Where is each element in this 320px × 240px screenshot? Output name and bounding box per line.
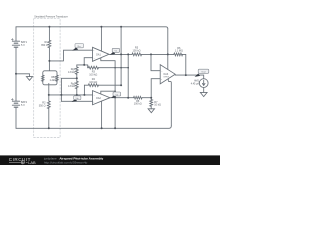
svg-text:Simulated Pressure Transducer: Simulated Pressure Transducer bbox=[34, 15, 68, 18]
ammeter M1 circle bbox=[199, 79, 208, 88]
OA3 minus-in wire bbox=[151, 79, 160, 98]
Rg chain wires bbox=[76, 65, 78, 95]
svg-text:LAB: LAB bbox=[28, 160, 36, 165]
resistor R6 zigzag bbox=[174, 53, 183, 56]
R7 wires bbox=[150, 98, 152, 109]
net flag OA1 +in bbox=[72, 44, 83, 51]
svg-text:10 kΩ: 10 kΩ bbox=[154, 104, 161, 107]
OA3 V+ pin bbox=[167, 29, 169, 69]
OA3 output wire bbox=[175, 75, 204, 79]
svg-text:OA2: OA2 bbox=[96, 97, 101, 100]
logo LAB line bbox=[9, 161, 28, 163]
bridge edge resistor right bbox=[56, 75, 58, 81]
svg-text:4.45 µA: 4.45 µA bbox=[191, 82, 200, 85]
svg-text:5 V: 5 V bbox=[21, 104, 25, 107]
Rg mid wire bbox=[61, 77, 76, 79]
caption bar bbox=[0, 155, 220, 165]
OA1 V- pin net bbox=[101, 58, 115, 128]
ammeter arrow bbox=[202, 80, 205, 85]
OA1 plus-in wire bbox=[49, 50, 92, 61]
R1 column wire bbox=[48, 27, 50, 71]
ammeter ground wire bbox=[203, 88, 205, 93]
svg-text:100 kΩ: 100 kΩ bbox=[133, 49, 141, 52]
resistor R3 zigzag bbox=[88, 66, 98, 69]
left rail bbox=[15, 27, 17, 129]
svg-text:OA3: OA3 bbox=[163, 73, 168, 76]
resistor R4 zigzag bbox=[88, 84, 98, 87]
battery BAT2 bbox=[12, 100, 19, 105]
ground triangle (mid supply) bbox=[26, 77, 32, 81]
R4 wire bbox=[84, 84, 121, 86]
OA2 output wire bbox=[110, 97, 151, 99]
svg-text:4.8 kΩ: 4.8 kΩ bbox=[68, 71, 75, 74]
op-amp OA2 bbox=[93, 91, 111, 105]
R4 to OA2 minus vertical bbox=[83, 85, 85, 95]
svg-text:http://circuitlab.com/c/59wscm: http://circuitlab.com/c/59wscm4p bbox=[44, 161, 88, 165]
svg-text:100 kΩ: 100 kΩ bbox=[89, 81, 97, 84]
net flag OA1 out bbox=[110, 48, 120, 54]
text labels bbox=[21, 15, 200, 107]
mid-supply ground wire bbox=[16, 74, 30, 77]
resistor RG1 zigzag bbox=[75, 67, 78, 74]
Rg top wire to R3 bbox=[77, 65, 88, 68]
cross vertical x=61.4 bbox=[60, 78, 62, 101]
op-amp OA3 bbox=[160, 65, 175, 84]
svg-text:350 Ω: 350 Ω bbox=[41, 44, 48, 47]
svg-text:4.8 kΩ: 4.8 kΩ bbox=[68, 85, 75, 88]
ground triangle output bbox=[200, 92, 207, 96]
OA1 minus-in wire bbox=[84, 58, 92, 65]
resistor R1 zigzag (vertical) bbox=[48, 40, 51, 47]
OA3 plus-in drop + R7 bbox=[151, 54, 160, 70]
svg-text:Vout: Vout bbox=[201, 71, 206, 74]
svg-text:OP07: OP07 bbox=[163, 77, 169, 79]
top rail bbox=[16, 27, 168, 29]
dashed enclosure box bbox=[34, 19, 60, 138]
bridge-bottom / OA2 minus-in wire bbox=[49, 94, 93, 96]
junction dots bbox=[15, 26, 187, 130]
resistor RG2 zigzag bbox=[75, 81, 78, 88]
svg-text:5 V: 5 V bbox=[21, 44, 25, 47]
OA2 V- pin to rail bbox=[101, 101, 103, 128]
resistor R7 zigzag bbox=[150, 99, 153, 106]
OA1 V+ pin bbox=[100, 27, 102, 51]
OA3 V- pin bbox=[168, 79, 171, 126]
battery plus marks bbox=[11, 38, 13, 100]
OA2 plus-in wire bbox=[61, 100, 92, 102]
bottom rail bbox=[16, 126, 171, 128]
svg-text:RB1: RB1 bbox=[51, 77, 56, 79]
svg-text:100 kΩ: 100 kΩ bbox=[134, 103, 142, 106]
svg-text:1.1 MΩ: 1.1 MΩ bbox=[175, 50, 183, 53]
OA1 output / R5R6 wire bbox=[109, 54, 186, 75]
ground triangle R7 bbox=[148, 109, 154, 113]
V3 vertical R3 feedback bbox=[127, 54, 129, 97]
OA2 V+ jog bbox=[101, 91, 115, 94]
bridge edge resistor left bbox=[42, 75, 44, 81]
svg-text:350 Ω: 350 Ω bbox=[39, 104, 46, 107]
net flag OA2 out bbox=[111, 92, 121, 98]
resistor R8 zigzag bbox=[134, 96, 142, 99]
V2 vertical from top rail to R4 bbox=[120, 27, 122, 85]
net flag output bbox=[195, 69, 209, 77]
op-amp +/- marks bbox=[93, 50, 163, 103]
R3 wire bbox=[88, 67, 129, 69]
bridge bottom wire + R2 bbox=[48, 83, 50, 128]
net flag OA2 +in bbox=[72, 96, 81, 102]
svg-text:OA1: OA1 bbox=[96, 53, 101, 56]
svg-text:Vb-: Vb- bbox=[75, 98, 79, 100]
op-amp OA1 bbox=[93, 47, 110, 61]
battery BAT1 bbox=[12, 40, 19, 45]
resistor R2 zigzag bbox=[47, 101, 50, 109]
bridge box component bbox=[43, 71, 57, 85]
resistor R5 zigzag bbox=[132, 53, 142, 56]
svg-text:1-4kΩ: 1-4kΩ bbox=[50, 80, 56, 82]
svg-text:100 kΩ: 100 kΩ bbox=[89, 74, 97, 77]
